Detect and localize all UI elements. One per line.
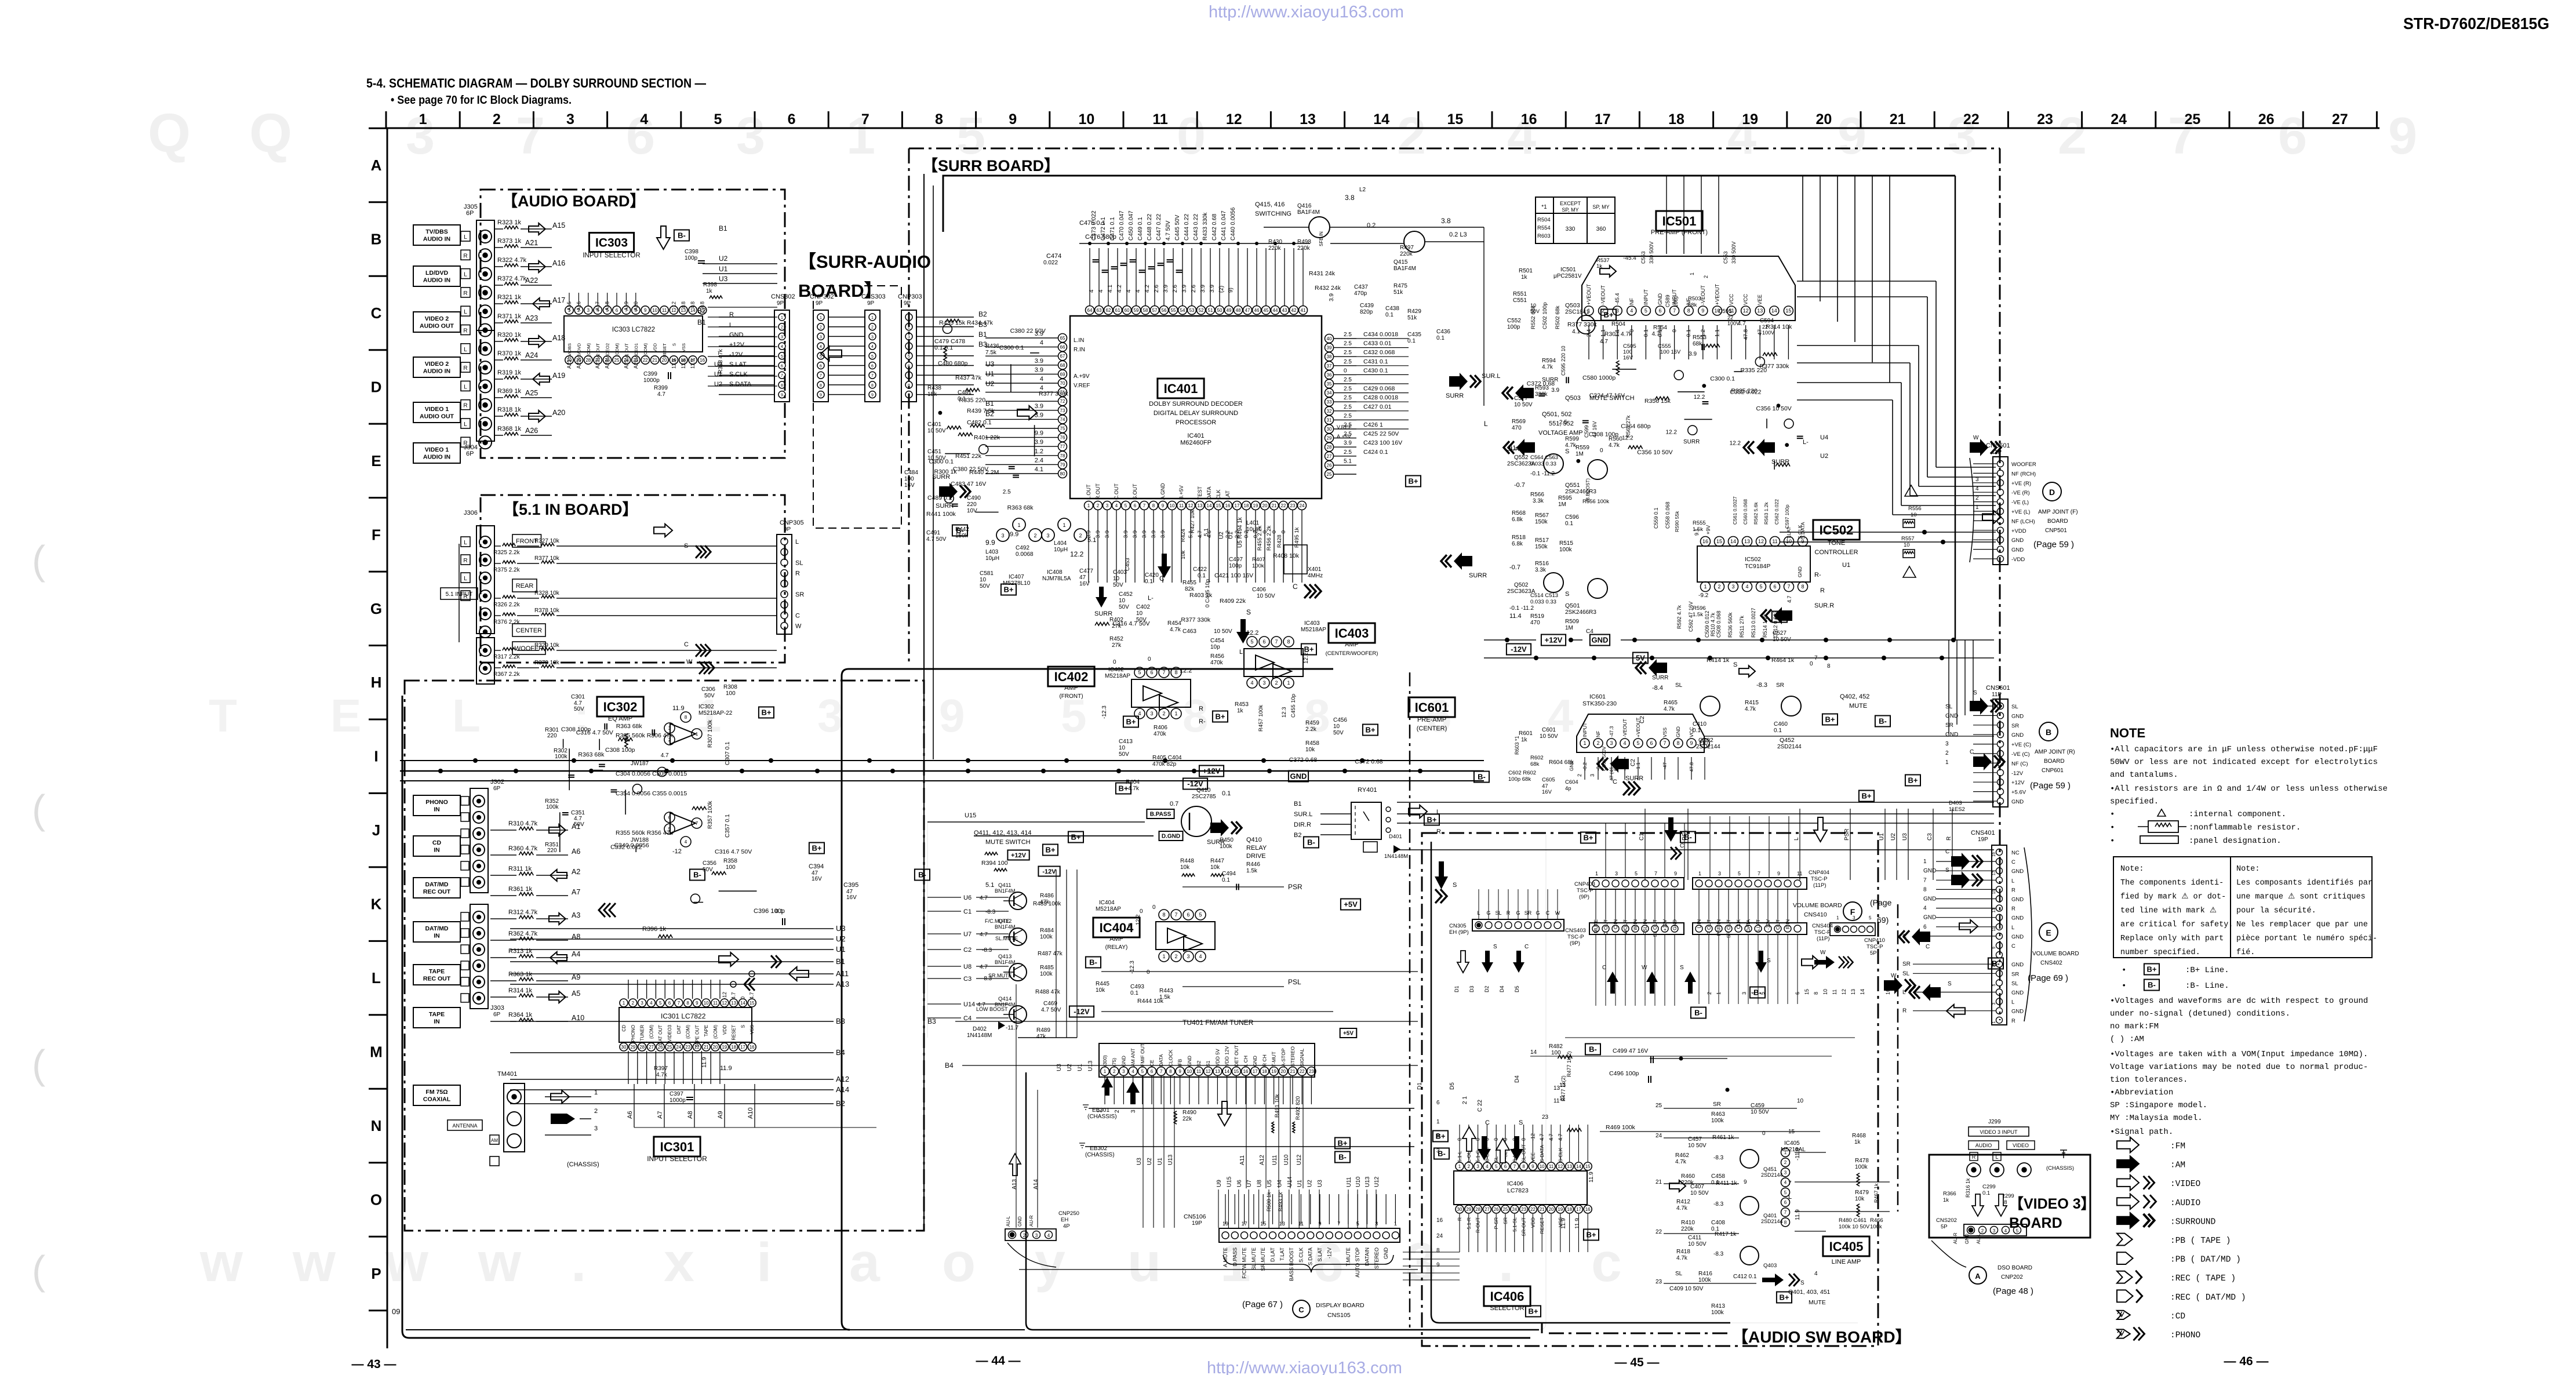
svg-text:10k: 10k (1210, 864, 1220, 871)
svg-text:G: G (370, 600, 382, 617)
svg-text:40: 40 (1327, 336, 1332, 341)
svg-text:6P: 6P (466, 210, 474, 217)
svg-text:TV/DBS: TV/DBS (567, 343, 572, 359)
svg-text:M62460FP: M62460FP (1180, 439, 1211, 446)
svg-text:+VE (L): +VE (L) (2011, 509, 2030, 515)
svg-text:TSC-P: TSC-P (1811, 876, 1828, 882)
svg-text:0: 0 (1152, 904, 1156, 911)
svg-text:0.1: 0.1 (1198, 573, 1206, 579)
svg-text:55: 55 (1171, 308, 1176, 313)
svg-text:4: 4 (820, 345, 822, 349)
svg-text:2SD2144: 2SD2144 (1761, 1218, 1783, 1224)
svg-text:C595 220 10: C595 220 10 (1560, 345, 1566, 376)
svg-text:3: 3 (587, 308, 590, 313)
svg-text:C: C (1902, 933, 1906, 940)
svg-text:C599: C599 (1584, 425, 1589, 438)
svg-text:(9P): (9P) (1579, 894, 1589, 900)
svg-text:E: E (330, 690, 361, 741)
svg-text:B4: B4 (836, 1048, 845, 1057)
svg-text:C553: C553 (1640, 251, 1646, 264)
svg-text:150k: 150k (1535, 544, 1548, 550)
svg-text:T.LAT: T.LAT (1279, 1247, 1285, 1261)
svg-text:C425 22 50V: C425 22 50V (1363, 431, 1399, 438)
svg-text:11: 11 (713, 1001, 718, 1006)
svg-text:2: 2 (594, 1108, 598, 1115)
svg-text:C491: C491 (926, 530, 940, 536)
svg-text:R313 1k: R313 1k (508, 948, 532, 955)
svg-text:0: 0 (1113, 659, 1116, 665)
svg-text:D.LAT: D.LAT (1270, 1247, 1276, 1262)
svg-text:C4: C4 (963, 1015, 972, 1022)
svg-text:25: 25 (1503, 1207, 1508, 1212)
svg-text:R602: R602 (1530, 755, 1544, 761)
svg-text:6: 6 (1923, 924, 1927, 930)
svg-text:— 44 —: — 44 — (976, 1354, 1020, 1367)
svg-text:4: 4 (1923, 905, 1927, 912)
svg-text:11.4: 11.4 (1509, 445, 1522, 452)
svg-text:•All resistors are in Ω and 1/: •All resistors are in Ω and 1/4W or less… (2110, 784, 2388, 794)
svg-text:R377 330k: R377 330k (1181, 617, 1211, 624)
svg-text:R357 100k: R357 100k (707, 801, 714, 829)
svg-text:R: R (463, 558, 467, 564)
svg-text:C458: C458 (1711, 1173, 1725, 1180)
svg-text:100k 10 50V: 100k 10 50V (1839, 1224, 1870, 1230)
svg-text:3: 3 (1262, 680, 1265, 686)
svg-text:A23: A23 (595, 359, 601, 369)
svg-text:7: 7 (1162, 670, 1165, 675)
svg-text:D401: D401 (1389, 834, 1402, 840)
svg-text:11: 11 (1549, 1164, 1554, 1169)
svg-text:R370 1k: R370 1k (497, 350, 521, 357)
svg-text:C605: C605 (1542, 777, 1555, 783)
svg-text:R493 1k: R493 1k (1278, 1192, 1283, 1212)
svg-text:AUTO STOP: AUTO STOP (1355, 1247, 1360, 1278)
svg-text:L: L (464, 540, 467, 546)
svg-text:SURR: SURR (1446, 392, 1464, 399)
svg-text:R377 10k: R377 10k (534, 555, 560, 562)
svg-text:69): 69) (1877, 915, 1889, 925)
svg-text:11.4: 11.4 (1509, 613, 1522, 620)
svg-text:R417 1k: R417 1k (1715, 1231, 1737, 1238)
svg-text:330 500V: 330 500V (1649, 241, 1654, 264)
svg-text:C560 0.068: C560 0.068 (1742, 499, 1748, 525)
svg-text:U5 R494 1k: U5 R494 1k (1237, 516, 1243, 548)
svg-text:R445: R445 (1096, 981, 1109, 987)
svg-text:220k: 220k (1268, 245, 1282, 252)
svg-text:(Page 59 ): (Page 59 ) (2030, 781, 2071, 791)
svg-text:PHONO: PHONO (631, 1025, 636, 1042)
svg-text:U2: U2 (1147, 1158, 1153, 1165)
svg-text:DAT/MD: DAT/MD (425, 925, 448, 932)
svg-text:C372 0.68: C372 0.68 (1355, 758, 1383, 765)
svg-text:A1: A1 (572, 823, 580, 831)
svg-text:A: A (371, 157, 382, 174)
svg-text:1M: 1M (1558, 501, 1566, 508)
svg-text:29: 29 (630, 1045, 635, 1050)
svg-text:3: 3 (820, 335, 822, 339)
svg-text:B+: B+ (1216, 712, 1225, 721)
svg-text:2.5: 2.5 (1003, 489, 1011, 496)
svg-text:67: 67 (1060, 354, 1065, 359)
svg-text:R418: R418 (1676, 1249, 1690, 1255)
svg-text:R438: R438 (927, 385, 941, 391)
svg-text:U14: U14 (963, 1001, 975, 1008)
svg-text:9: 9 (644, 308, 647, 313)
svg-text:(COM): (COM) (713, 1025, 718, 1039)
svg-text:34: 34 (1327, 391, 1332, 396)
svg-text:A7: A7 (572, 888, 580, 896)
svg-text:2: 2 (1707, 992, 1712, 995)
svg-text:GND: GND (1592, 636, 1609, 645)
svg-text:10: 10 (980, 577, 987, 583)
svg-text:C: C (1293, 583, 1298, 591)
svg-text:R517: R517 (1535, 537, 1549, 544)
svg-text:5: 5 (1636, 740, 1639, 746)
svg-text:R440 2.2M: R440 2.2M (969, 469, 999, 476)
svg-text:6P: 6P (466, 450, 474, 457)
svg-text:C: C (684, 641, 689, 648)
svg-text:2: 2 (1468, 1164, 1471, 1169)
svg-text:(300): (300) (1102, 1055, 1108, 1067)
svg-text:AUDIO OUT: AUDIO OUT (420, 413, 454, 420)
svg-text:IC302: IC302 (603, 700, 638, 714)
svg-text:CENTER: CENTER (516, 627, 542, 634)
svg-text:SR.MUTE: SR.MUTE (1260, 1247, 1266, 1271)
svg-text:R468: R468 (1852, 1133, 1866, 1139)
svg-text:11P: 11P (1992, 692, 2002, 698)
svg-text:LC7823: LC7823 (1507, 1187, 1529, 1194)
svg-text:GND: GND (1945, 732, 1958, 738)
svg-text:C307 0.1: C307 0.1 (725, 741, 731, 765)
svg-text:L: L (464, 272, 467, 278)
svg-text:15: 15 (1788, 1129, 1795, 1135)
svg-text:2: 2 (493, 111, 501, 128)
svg-text:GND: GND (1383, 1247, 1389, 1260)
svg-text:3.9: 3.9 (1344, 440, 1352, 446)
svg-text:24: 24 (2111, 111, 2127, 128)
svg-text:23: 23 (1290, 503, 1296, 508)
svg-text:and tantalums.: and tantalums. (2110, 770, 2178, 780)
svg-text:U2: U2 (1890, 833, 1897, 841)
svg-text:SL: SL (2011, 704, 2018, 710)
svg-text:15: 15 (1447, 111, 1463, 128)
svg-text:R361 1k: R361 1k (508, 886, 532, 893)
svg-text:A8: A8 (572, 933, 580, 941)
svg-text:1: 1 (696, 732, 698, 737)
svg-text:W: W (1973, 435, 1979, 441)
svg-text:B-: B- (1089, 958, 1097, 967)
svg-text:13: 13 (1198, 503, 1203, 508)
svg-text:R-: R- (1199, 718, 1206, 725)
svg-text:11: 11 (1196, 1069, 1202, 1074)
svg-text:28: 28 (585, 358, 591, 363)
svg-text:R308: R308 (723, 684, 737, 690)
svg-text:25: 25 (1327, 472, 1332, 477)
svg-text:1M: 1M (1565, 625, 1573, 631)
svg-text:CD: CD (621, 1025, 627, 1032)
svg-text:SL: SL (795, 559, 803, 566)
svg-text:U1: U1 (1157, 1158, 1163, 1165)
svg-text:4P: 4P (1063, 1223, 1070, 1230)
svg-text:A8: A8 (687, 1111, 694, 1119)
svg-text:C592 47 16V: C592 47 16V (1688, 601, 1694, 632)
svg-text:4.1: 4.1 (1035, 466, 1043, 473)
svg-text:10k: 10k (1180, 550, 1187, 559)
svg-text:C354 0.0056 C355 0.0015: C354 0.0056 C355 0.0015 (616, 790, 687, 797)
svg-text:L: L (464, 347, 467, 353)
svg-text:22k: 22k (1183, 1116, 1192, 1122)
svg-text:3.9: 3.9 (1123, 530, 1129, 538)
svg-text:http://www.xiaoyu163.com: http://www.xiaoyu163.com (1207, 1359, 1402, 1375)
svg-text:S: S (1565, 591, 1569, 598)
svg-text:13: 13 (731, 1001, 736, 1006)
svg-text:4: 4 (1250, 680, 1253, 686)
svg-text:VDD 12V: VDD 12V (1224, 1046, 1230, 1067)
svg-text:AMP JOINT (F): AMP JOINT (F) (2038, 509, 2078, 515)
svg-text:R489: R489 (1036, 1027, 1050, 1034)
svg-text:EXCEPT: EXCEPT (1560, 201, 1581, 206)
svg-text:COAXIAL: COAXIAL (423, 1096, 451, 1103)
svg-text:CNP410: CNP410 (1864, 937, 1885, 944)
svg-text:3: 3 (1784, 1170, 1787, 1175)
svg-text:R467 1k: R467 1k (1873, 1183, 1879, 1203)
svg-text:R401 22k: R401 22k (974, 434, 1000, 441)
svg-text:32: 32 (1327, 409, 1332, 414)
svg-text:13: 13 (1744, 539, 1750, 544)
svg-text:R458: R458 (1305, 740, 1319, 747)
svg-text:8: 8 (781, 384, 783, 388)
svg-text:R460: R460 (1681, 1173, 1695, 1180)
svg-text:D: D (2049, 488, 2055, 497)
svg-text:C595: C595 (1718, 308, 1732, 315)
svg-text:C552: C552 (1507, 318, 1521, 324)
svg-text::PB ( TAPE ): :PB ( TAPE ) (2170, 1236, 2231, 1246)
svg-text:IC402: IC402 (1054, 670, 1089, 684)
svg-text:4.7: 4.7 (657, 391, 665, 398)
svg-text:17: 17 (1576, 1207, 1581, 1212)
svg-text:R502 68k: R502 68k (1555, 305, 1561, 329)
svg-text:MUTE SWITCH: MUTE SWITCH (985, 839, 1031, 846)
svg-text:C561 0.0027: C561 0.0027 (1732, 496, 1738, 525)
svg-text:1: 1 (1836, 915, 1839, 921)
svg-text:CNP250: CNP250 (1058, 1210, 1079, 1217)
svg-text:6: 6 (1313, 1232, 1344, 1293)
svg-text:NF: NF (1629, 298, 1635, 305)
svg-text:SURR: SURR (1469, 572, 1487, 579)
svg-text:(CHASSIS): (CHASSIS) (567, 1161, 599, 1168)
svg-text:AU-R: AU-R (1029, 1215, 1034, 1227)
svg-text:5: 5 (908, 355, 910, 359)
svg-text:S.OUT: S.OUT (1132, 483, 1138, 500)
svg-text:-VEOUT: -VEOUT (1600, 285, 1606, 305)
svg-text:4.1: 4.1 (1572, 329, 1580, 335)
svg-text:3: 3 (1992, 1003, 1996, 1005)
svg-text:R554: R554 (1653, 325, 1667, 331)
svg-text:B3: B3 (927, 1017, 936, 1025)
svg-text:10 50V: 10 50V (1690, 1190, 1709, 1196)
svg-text:5: 5 (1250, 639, 1253, 645)
svg-text:A24: A24 (525, 351, 538, 359)
svg-text:S.DATA: S.DATA (1308, 1247, 1314, 1265)
svg-text:C411: C411 (1688, 1235, 1702, 1241)
svg-text:R599: R599 (1565, 436, 1579, 442)
svg-text:C558 0.068: C558 0.068 (1665, 501, 1671, 529)
svg-text:C430 0.1: C430 0.1 (1363, 367, 1388, 374)
svg-text:4: 4 (1135, 289, 1141, 293)
svg-text:•All capacitors are in μF unle: •All capacitors are in μF unless otherwi… (2110, 745, 2378, 754)
svg-text:24: 24 (676, 1045, 681, 1050)
svg-text:16V: 16V (812, 876, 822, 882)
svg-text:R456 2.2k: R456 2.2k (1266, 525, 1272, 551)
svg-text:BN1F4M: BN1F4M (995, 959, 1016, 965)
svg-text:5.1: 5.1 (1203, 528, 1210, 536)
svg-text:15: 15 (1992, 889, 1996, 894)
svg-text:100p: 100p (1507, 324, 1520, 330)
svg-text:12.2: 12.2 (1730, 441, 1741, 447)
svg-text:A13: A13 (1012, 1179, 1018, 1190)
svg-text:10k: 10k (1855, 1196, 1865, 1202)
svg-text:( ) :AM: ( ) :AM (2110, 1035, 2144, 1044)
svg-text:R562 5.6k: R562 5.6k (1753, 502, 1759, 525)
svg-text:C509 0.012: C509 0.012 (1704, 610, 1710, 638)
svg-text:U13: U13 (1087, 1060, 1094, 1071)
svg-text:GND: GND (2011, 537, 2024, 544)
svg-text:R399: R399 (654, 385, 668, 391)
svg-text:TSC-P: TSC-P (1567, 934, 1584, 940)
svg-text:U12: U12 (1374, 1176, 1380, 1187)
svg-text:C551: C551 (1513, 297, 1527, 304)
svg-text:2: 2 (1113, 1069, 1116, 1074)
svg-text:-0.7: -0.7 (1509, 564, 1520, 571)
svg-text:28: 28 (1475, 1207, 1480, 1212)
svg-text:R519: R519 (1530, 613, 1544, 620)
svg-text:1: 1 (1174, 711, 1177, 716)
svg-text:U3: U3 (1136, 1158, 1143, 1165)
svg-text:3.9: 3.9 (1329, 293, 1335, 301)
svg-text:C422: C422 (1193, 566, 1207, 573)
svg-text:4.7: 4.7 (980, 964, 988, 970)
svg-text:C408: C408 (1711, 1220, 1725, 1226)
svg-text:SL OUT: SL OUT (1652, 919, 1658, 937)
svg-text:.: . (571, 1232, 586, 1293)
svg-text:+12V: +12V (729, 341, 745, 348)
svg-text:GND: GND (1964, 1234, 1970, 1244)
svg-text:TAPE: TAPE (429, 1011, 445, 1018)
svg-text:-VE (C): -VE (C) (2011, 751, 2030, 758)
svg-text:18: 18 (731, 1045, 736, 1050)
svg-text:BOARD: BOARD (2044, 758, 2065, 765)
svg-text:51k: 51k (1407, 315, 1417, 321)
svg-text:IC303 LC7822: IC303 LC7822 (612, 326, 655, 333)
svg-text:PHONO: PHONO (425, 799, 448, 806)
svg-text:GND: GND (1569, 761, 1574, 771)
svg-text:U10: U10 (1355, 1176, 1362, 1187)
svg-text:4: 4 (1975, 486, 1979, 492)
svg-text:16: 16 (1585, 1207, 1591, 1212)
svg-text:R444 10k: R444 10k (1137, 998, 1164, 1005)
svg-text:0: 0 (1600, 448, 1603, 454)
svg-text:C477: C477 (1079, 568, 1093, 574)
svg-text:C356: C356 (703, 860, 716, 867)
svg-text:TONE: TONE (1828, 540, 1845, 547)
svg-text:57: 57 (1152, 308, 1158, 313)
svg-text:DRIVE: DRIVE (1246, 853, 1266, 860)
svg-text:9: 9 (1744, 1179, 1747, 1185)
svg-text:B+: B+ (1126, 718, 1136, 726)
svg-text:R: R (729, 311, 734, 318)
svg-text:11.9: 11.9 (1574, 1218, 1581, 1229)
svg-text:-12: -12 (671, 301, 676, 309)
svg-text:3: 3 (1718, 871, 1721, 876)
svg-text:15: 15 (1785, 308, 1791, 314)
svg-text:0: 0 (1147, 969, 1150, 976)
svg-text:C: C (1525, 944, 1529, 950)
svg-text:4: 4 (1630, 308, 1633, 314)
svg-text:U3: U3 (1902, 833, 1908, 841)
svg-text:4: 4 (871, 345, 874, 349)
svg-text:SP, MY: SP, MY (1562, 207, 1578, 213)
svg-text:(CENTER): (CENTER) (1417, 725, 1447, 732)
svg-text:4.7 50V: 4.7 50V (1041, 1007, 1061, 1013)
svg-text:C553: C553 (1723, 251, 1729, 264)
svg-text:R515: R515 (1559, 540, 1573, 547)
svg-text:R592 4.7k: R592 4.7k (1676, 605, 1682, 629)
svg-text:3: 3 (566, 111, 574, 128)
svg-text:VIDEO 1: VIDEO 1 (425, 406, 449, 413)
svg-text:-12V: -12V (729, 351, 743, 358)
svg-text:79: 79 (1060, 462, 1065, 467)
svg-text:AMP: AMP (1345, 641, 1359, 648)
svg-text:4: 4 (1623, 740, 1626, 746)
svg-text:http://www.xiaoyu163.com: http://www.xiaoyu163.com (1209, 3, 1404, 21)
svg-text:CLOCK: CLOCK (1167, 1049, 1173, 1067)
svg-text:C596: C596 (1565, 514, 1579, 521)
svg-text:(: ( (32, 1247, 45, 1293)
svg-text:CNP305: CNP305 (780, 519, 804, 526)
svg-text:R478: R478 (1855, 1158, 1869, 1164)
svg-text:U11: U11 (1346, 1177, 1352, 1187)
svg-text:10k: 10k (1305, 747, 1315, 753)
svg-text:EH: EH (1061, 1217, 1068, 1223)
svg-text:IC403: IC403 (1335, 626, 1369, 641)
svg-text:12: 12 (1226, 111, 1242, 128)
svg-text:R567: R567 (1535, 512, 1549, 519)
svg-text:0: 0 (1762, 1130, 1766, 1137)
svg-text:10p: 10p (1210, 644, 1220, 650)
svg-text:VIDEO 2: VIDEO 2 (425, 361, 449, 368)
svg-text:6: 6 (668, 1001, 671, 1006)
svg-text:11: 11 (662, 308, 667, 313)
svg-text:A20: A20 (552, 409, 565, 417)
svg-text:Q452: Q452 (1780, 737, 1795, 744)
svg-text:4: 4 (1098, 289, 1104, 293)
svg-text:C496 100p: C496 100p (1609, 1070, 1639, 1077)
svg-text:VOLUME BOARD: VOLUME BOARD (1793, 902, 1842, 909)
svg-text:7: 7 (1663, 740, 1666, 746)
svg-text:R536 560k: R536 560k (1727, 612, 1733, 638)
svg-text:1k: 1k (1943, 1197, 1949, 1203)
svg-text:B1: B1 (697, 318, 706, 326)
svg-text:SUR.R: SUR.R (1814, 602, 1834, 609)
svg-text:DOLBY SURROUND DECODER: DOLBY SURROUND DECODER (1149, 401, 1243, 408)
svg-text:1: 1 (1923, 859, 1927, 865)
svg-text:9.9: 9.9 (1010, 531, 1018, 538)
svg-text:C455 10p: C455 10p (1290, 694, 1297, 718)
svg-text:6.8k: 6.8k (1512, 516, 1523, 523)
svg-text:SURR: SURR (932, 474, 950, 481)
svg-text:16V: 16V (1079, 581, 1090, 587)
svg-text:0.022: 0.022 (1043, 260, 1058, 266)
